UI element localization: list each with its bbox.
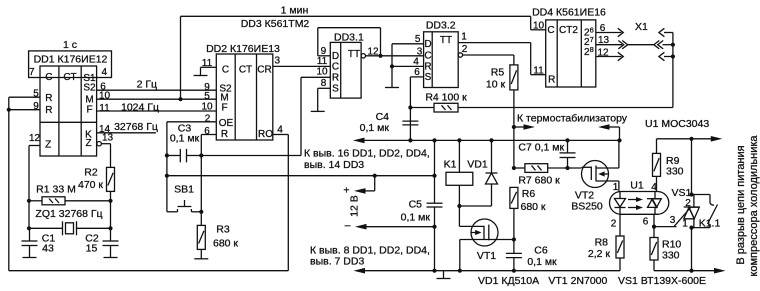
svg-text:C: C: [424, 51, 431, 62]
svg-text:CT: CT: [63, 72, 76, 83]
svg-text:DD3.2: DD3.2: [426, 19, 456, 31]
svg-text:11: 11: [99, 103, 110, 114]
svg-text:2: 2: [205, 114, 211, 125]
svg-text:VT1: VT1: [477, 250, 496, 262]
svg-text:R3: R3: [216, 224, 230, 236]
svg-text:1: 1: [461, 32, 467, 43]
svg-text:S: S: [332, 84, 339, 95]
svg-text:5: 5: [204, 91, 210, 102]
svg-text:1024 Гц: 1024 Гц: [121, 102, 159, 114]
svg-text:U1: U1: [630, 180, 644, 192]
svg-text:K1: K1: [444, 159, 457, 171]
svg-text:12: 12: [29, 133, 41, 144]
svg-text:CR: CR: [257, 65, 271, 76]
svg-text:VT1 2N7000: VT1 2N7000: [548, 275, 607, 287]
svg-text:ZQ1 32768 Гц: ZQ1 32768 Гц: [35, 208, 102, 220]
svg-text:11: 11: [317, 56, 328, 67]
svg-text:C: C: [332, 62, 339, 73]
svg-text:1 мин: 1 мин: [281, 5, 309, 17]
svg-text:1: 1: [682, 219, 688, 230]
svg-text:680 к: 680 к: [520, 201, 545, 213]
svg-text:1: 1: [613, 182, 619, 193]
svg-text:R5: R5: [491, 67, 505, 79]
svg-text:12 В: 12 В: [348, 195, 360, 217]
svg-text:2 Гц: 2 Гц: [137, 79, 157, 91]
svg-text:R: R: [45, 93, 52, 104]
svg-text:R4 100 к: R4 100 к: [425, 92, 467, 104]
svg-text:выв. 7 DD3: выв. 7 DD3: [310, 256, 364, 268]
svg-text:C7 0,1 мк: C7 0,1 мк: [518, 142, 564, 154]
svg-text:+: +: [343, 184, 349, 196]
svg-text:680 к: 680 к: [213, 238, 238, 250]
svg-text:6: 6: [643, 216, 649, 227]
svg-text:Z: Z: [85, 138, 91, 149]
svg-text:32768 Гц: 32768 Гц: [114, 121, 158, 133]
svg-text:R1 33 M: R1 33 M: [36, 184, 76, 196]
svg-text:F: F: [221, 103, 227, 114]
svg-text:R: R: [548, 75, 555, 86]
svg-text:X1: X1: [635, 21, 648, 33]
svg-text:VD1 КД510А: VD1 КД510А: [478, 275, 539, 287]
svg-text:6: 6: [204, 126, 210, 137]
svg-text:CT: CT: [239, 65, 252, 76]
svg-text:C: C: [547, 25, 554, 36]
svg-text:7: 7: [29, 67, 35, 78]
svg-text:S: S: [425, 72, 432, 83]
svg-text:CT2: CT2: [559, 25, 578, 36]
svg-text:–: –: [345, 220, 351, 232]
svg-text:C: C: [222, 65, 229, 76]
svg-text:D: D: [332, 51, 339, 62]
svg-text:3: 3: [275, 56, 281, 67]
svg-text:R6: R6: [522, 188, 536, 200]
svg-text:DD2 К176ИЕ13: DD2 К176ИЕ13: [206, 43, 280, 55]
svg-text:OE: OE: [219, 118, 234, 129]
svg-text:К термостабилизатору: К термостабилизатору: [517, 113, 628, 125]
svg-text:5: 5: [415, 34, 421, 45]
svg-text:S2: S2: [83, 83, 96, 94]
svg-text:В разрыв цепи питания: В разрыв цепи питания: [735, 145, 747, 264]
svg-text:10 к: 10 к: [486, 79, 506, 91]
svg-text:8: 8: [321, 78, 327, 89]
svg-text:R7 680 к: R7 680 к: [518, 175, 560, 187]
svg-text:10: 10: [316, 67, 328, 78]
svg-text:RO: RO: [258, 129, 273, 140]
svg-text:43: 43: [42, 243, 54, 255]
svg-text:C6: C6: [534, 245, 548, 257]
svg-text:D: D: [424, 39, 431, 50]
svg-text:выв. 14 DD3: выв. 14 DD3: [304, 159, 364, 171]
svg-text:VS1 ВТ139Х-600Е: VS1 ВТ139Х-600Е: [618, 275, 706, 287]
svg-text:DD1 К176ИЕ12: DD1 К176ИЕ12: [34, 53, 108, 65]
svg-text:0,1 мк: 0,1 мк: [527, 256, 557, 268]
svg-text:SB1: SB1: [174, 184, 194, 196]
svg-text:R: R: [221, 129, 228, 140]
svg-text:0,1 мк: 0,1 мк: [401, 212, 431, 224]
svg-text:11: 11: [533, 65, 544, 76]
svg-text:0,1 мк: 0,1 мк: [360, 122, 390, 134]
svg-text:1 с: 1 с: [63, 39, 77, 51]
svg-text:F: F: [86, 105, 92, 116]
svg-text:3: 3: [670, 215, 676, 226]
svg-text:U1 MOC3043: U1 MOC3043: [645, 118, 709, 130]
svg-text:330: 330: [662, 250, 680, 262]
svg-text:330: 330: [666, 166, 684, 178]
svg-text:DD3 К561ТМ2: DD3 К561ТМ2: [241, 18, 310, 30]
svg-text:R2: R2: [84, 167, 98, 179]
svg-text:BS250: BS250: [571, 201, 603, 213]
svg-text:R: R: [332, 73, 339, 84]
svg-text:VD1: VD1: [467, 159, 488, 171]
svg-text:R8: R8: [595, 237, 609, 249]
svg-text:DD3.1: DD3.1: [334, 31, 364, 43]
svg-text:компрессора холодильника: компрессора холодильника: [748, 135, 760, 277]
svg-text:C5: C5: [409, 199, 423, 211]
svg-text:4: 4: [102, 67, 108, 78]
svg-text:12: 12: [367, 46, 379, 57]
svg-text:15: 15: [86, 243, 98, 255]
svg-text:2: 2: [462, 44, 468, 55]
svg-text:2: 2: [611, 218, 617, 229]
svg-text:C: C: [45, 72, 52, 83]
svg-text:К выв. 16 DD1, DD2, DD4,: К выв. 16 DD1, DD2, DD4,: [304, 148, 430, 160]
svg-text:K1.1: K1.1: [699, 217, 721, 229]
svg-text:TT: TT: [348, 49, 360, 60]
svg-text:13: 13: [102, 133, 114, 144]
svg-text:Z: Z: [45, 140, 51, 151]
svg-text:0,1 мк: 0,1 мк: [170, 132, 200, 144]
svg-text:4: 4: [413, 56, 419, 67]
svg-text:R: R: [45, 105, 52, 116]
svg-text:TT: TT: [440, 35, 452, 46]
svg-text:DD4 К561ИЕ16: DD4 К561ИЕ16: [532, 6, 606, 18]
svg-text:R: R: [424, 62, 431, 73]
svg-text:470 к: 470 к: [78, 179, 103, 191]
svg-text:10: 10: [201, 102, 213, 113]
svg-text:2,2 к: 2,2 к: [588, 248, 611, 260]
